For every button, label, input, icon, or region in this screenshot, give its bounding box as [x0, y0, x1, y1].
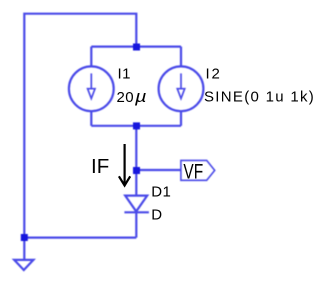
svg-text:VF: VF: [183, 159, 203, 183]
svg-text:I1: I1: [118, 66, 131, 83]
svg-text:SINE(0 1u 1k): SINE(0 1u 1k): [204, 88, 315, 105]
svg-text:µ: µ: [134, 87, 147, 106]
svg-text:20: 20: [117, 89, 135, 106]
svg-text:I2: I2: [206, 66, 222, 83]
svg-text:IF: IF: [91, 155, 109, 178]
svg-text:D: D: [151, 206, 162, 223]
svg-text:D1: D1: [151, 184, 171, 201]
